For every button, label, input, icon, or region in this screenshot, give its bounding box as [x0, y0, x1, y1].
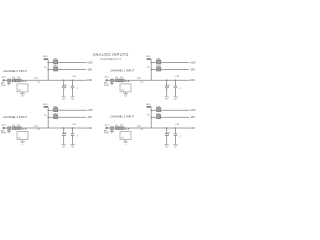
svg-text:CHANNEL 2 INPUT: CHANNEL 2 INPUT [3, 115, 27, 119]
svg-text:AIN0: AIN0 [86, 79, 92, 82]
svg-text:AIN3: AIN3 [189, 127, 195, 130]
svg-text:CHANNEL 3 INPUT: CHANNEL 3 INPUT [110, 115, 134, 119]
svg-text:AIN1: AIN1 [189, 79, 195, 82]
svg-text:CHANNEL 0 INPUT: CHANNEL 0 INPUT [3, 69, 27, 73]
svg-text:AIN2: AIN2 [86, 127, 92, 130]
svg-text:CHANNELS 0-4: CHANNELS 0-4 [100, 57, 121, 61]
svg-text:CHANNEL 1 INPUT: CHANNEL 1 INPUT [110, 68, 134, 72]
